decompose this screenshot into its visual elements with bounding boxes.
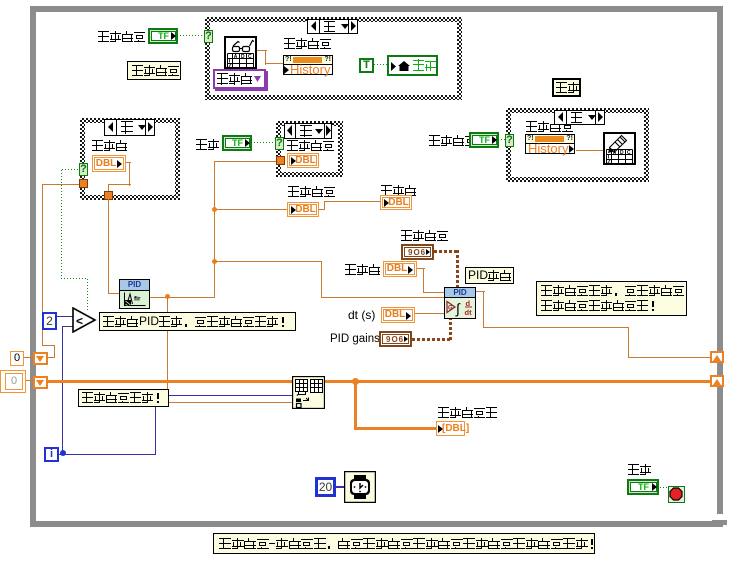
VI PID [444, 287, 476, 319]
label 停止 [628, 464, 652, 475]
svg-text:fir: fir [134, 296, 141, 303]
indicator DBL (chart feed) [287, 153, 319, 168]
wire: boolean dotted from read TF chain to less? [61, 169, 62, 279]
svg-text:A: A [613, 150, 617, 156]
case structure (init) [80, 118, 180, 200]
wire: 暂停 TF to false case selector [254, 142, 276, 144]
wire: i to less [62, 326, 73, 327]
wire: PID gains to PID (dashed brown) [412, 338, 452, 341]
label 输出限制 [401, 230, 449, 241]
node: junction dot spine/PV [212, 259, 217, 264]
svg-text:∫: ∫ [455, 301, 461, 317]
label 暂停 [196, 139, 220, 150]
constant 20 [315, 477, 336, 497]
svg-text:<: < [76, 314, 83, 328]
label dt (s) [348, 308, 375, 322]
control PID gains cluster [379, 331, 412, 347]
label 波形图表 (chart local) [287, 140, 335, 151]
wire: PV to PID [214, 261, 321, 262]
VI write waveform to file [603, 132, 636, 165]
selector terminal ? (save case) [505, 134, 514, 147]
label 滑动杆 [381, 185, 417, 196]
shift register left 1 [33, 352, 48, 365]
tunnel left (false case) [276, 156, 285, 165]
free label 保存 [552, 78, 581, 97]
svg-text:dt: dt [465, 308, 473, 317]
label PID gains [330, 333, 380, 345]
control 暂停 TF [222, 135, 252, 151]
wire: i to build array [59, 454, 156, 455]
indicator 当前温度 DBL [287, 202, 319, 217]
wire: history to write VI [576, 150, 603, 151]
selector terminal ? (false case) [275, 137, 284, 150]
control 保存波形 TF [469, 132, 499, 148]
property node 波形图表:History [283, 55, 333, 65]
wire: array down to 全景波形图 [354, 380, 357, 429]
constant 2 [42, 312, 57, 330]
wire: 20 to wait [336, 486, 345, 488]
case structure (save) [506, 108, 649, 182]
control 停止 TF [627, 479, 659, 495]
free label 相当与PID滤波 comment [99, 312, 296, 331]
svg-text:C: C [627, 150, 631, 156]
label 保存波形 (control caption) [429, 135, 477, 146]
wire: 期望值 to PID setpoint [417, 268, 425, 269]
wire: bottom tunnel down to PID filter [108, 199, 109, 294]
case selector 假 [284, 123, 332, 139]
label 读取波形 (control caption) [98, 31, 146, 42]
wire: PID output to right shift register [476, 291, 485, 292]
shift register right 2 [710, 375, 724, 387]
VI read waveform from file [224, 36, 257, 69]
svg-text:C: C [248, 54, 252, 60]
label 波形图表 (graph property) [526, 121, 574, 132]
case selector 真 (init) [104, 119, 155, 136]
constant array 0 (init for array shift register) [0, 370, 26, 393]
svg-text:D: D [620, 150, 624, 156]
function less? [72, 307, 97, 333]
svg-text:G: G [448, 306, 453, 312]
wire: array 0 to shift register [26, 380, 34, 381]
VI PID advanced filter [119, 279, 150, 309]
selector terminal ? (read case) [204, 30, 213, 43]
wire: 读取波形 TF to case selector (dotted green) [180, 35, 205, 37]
constant 0 (init for top shift register) [10, 351, 24, 366]
wire: T to local variable (dotted green) [374, 64, 387, 66]
selector terminal ? (init case) [79, 163, 88, 176]
wire: 停止 to loop condition (dotted green) [660, 487, 668, 489]
wire: DBL to bottom tunnel [126, 162, 131, 163]
case selector 真 [307, 19, 358, 34]
free label 任意控制函数 comment [536, 281, 687, 316]
label 全景波形图 [438, 407, 498, 418]
ring constant 双精度 [213, 69, 266, 89]
wire: spine top into false case tunnel [214, 161, 276, 162]
wire: dt to PID [415, 313, 444, 314]
free label PID控制 [465, 267, 514, 284]
label 当前温度 [288, 186, 336, 197]
tunnel left (init case) [79, 179, 88, 188]
terminal loop condition (stop sign) [668, 486, 685, 503]
wire: PID filter output to spine [150, 297, 215, 298]
local variable 暂停 [387, 55, 438, 76]
label 期望值 [345, 264, 381, 275]
control 读取波形 TF [148, 28, 178, 44]
shift register left 2 [33, 376, 48, 389]
node: junction dot at spine/当前温度 [212, 207, 217, 212]
wire: 0 to shift register [24, 357, 34, 358]
wire: 输出限制 cluster to PID (dashed brown) [434, 250, 459, 253]
free label 读取波形 [127, 61, 181, 80]
wire: branch down to build array input [167, 296, 168, 404]
terminal i [44, 447, 59, 462]
node: junction dot on i wire [60, 450, 66, 456]
node: junction array wire [352, 378, 359, 385]
case structure (false) [276, 121, 343, 177]
label 波形图表 (chart property) [284, 38, 332, 49]
wire: array spine (thick) across loop [47, 380, 711, 383]
case selector 真 (save) [554, 110, 605, 125]
wire: read VI to property node [257, 50, 267, 51]
control dt DBL [381, 307, 415, 323]
VI wait ms [344, 471, 376, 503]
indicator 滑动杆 DBL [380, 195, 412, 210]
svg-text:D: D [241, 54, 245, 60]
constant T (true) [359, 58, 374, 73]
control 初始值 DBL [92, 155, 126, 172]
tunnel bottom (init case) [104, 191, 113, 200]
wire: 当前温度 to 滑动杆 [319, 209, 325, 210]
node: junction to build array branch [165, 294, 170, 299]
control 期望值 DBL [383, 261, 417, 277]
wire: spine to 当前温度 [214, 209, 287, 210]
wire: 保存波形 TF to save case selector [501, 139, 508, 141]
free label 打开帮助 help hint [213, 533, 595, 554]
indicator 全景波形图 DBL array [436, 421, 465, 436]
svg-text:A: A [234, 54, 238, 60]
shift register right 1 [710, 351, 724, 363]
case structure (read) [205, 17, 462, 100]
wire: 2 to less [57, 316, 73, 317]
free label 构成全景数组 comment [78, 389, 169, 407]
property node 波形图:History (save) [525, 134, 575, 144]
while loop corner resize notch [716, 514, 723, 520]
control 输出限制 cluster [401, 244, 434, 260]
wire: left shift register up into case (orange) [42, 184, 80, 185]
label 初始值 [92, 140, 128, 151]
